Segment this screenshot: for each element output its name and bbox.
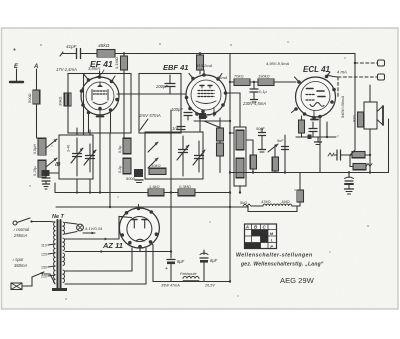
vertical line right: [354, 54, 356, 151]
ECL cathode resistor: [299, 116, 305, 137]
svg-text:0,15μ: 0,15μ: [33, 166, 37, 176]
cathode wire y137: [296, 122, 336, 145]
wire to coil: [37, 137, 43, 139]
osc trimmer 1: [177, 136, 189, 176]
vertical resistor chain x275: [272, 145, 279, 173]
svg-text:0,1μ: 0,1μ: [259, 89, 268, 94]
svg-text:EBF 41: EBF 41: [163, 63, 188, 72]
filter cap 2: [200, 250, 218, 288]
tone network caps right: [328, 150, 372, 170]
IF box EBF: [139, 74, 181, 134]
wire OT down to bus: [369, 129, 371, 173]
EBF cathode wire: [194, 120, 230, 122]
junction dots: [229, 132, 231, 134]
wave switch table: [245, 224, 277, 249]
tube ECL41: [292, 72, 336, 120]
osc switch arrow 2: [148, 158, 158, 168]
secondary winding 1: [63, 222, 65, 235]
wire between resistors: [250, 81, 258, 83]
cap to ground antenna: [42, 176, 50, 189]
svg-text:48kΩ: 48kΩ: [98, 43, 110, 49]
wire coil junction to box: [46, 172, 59, 174]
resistor 48k: [97, 43, 115, 57]
svg-text:26,5V: 26,5V: [204, 284, 215, 288]
svg-text:47kΩ: 47kΩ: [261, 199, 271, 204]
cathode line AZ11: [151, 242, 154, 282]
secondary winding 2: [63, 238, 65, 251]
svg-text:30kΩ: 30kΩ: [58, 97, 63, 106]
svg-text:8μF: 8μF: [177, 259, 185, 264]
heater wires AZ11: [65, 248, 146, 284]
volume pot: [240, 199, 297, 212]
resistor screen EBF vertical: [197, 52, 204, 74]
vertical component column x220: [217, 118, 224, 173]
svg-text:70kΩ: 70kΩ: [234, 74, 244, 79]
svg-text:4,1V/0,34: 4,1V/0,34: [85, 226, 103, 231]
ECL pin wire down: [319, 118, 321, 173]
primary taps: [41, 244, 55, 279]
svg-text:360mA: 360mA: [14, 263, 27, 268]
ground below blob: [135, 180, 143, 183]
core blob: [134, 169, 143, 177]
band switch arrow 1: [46, 139, 57, 148]
svg-text:915-2mA: 915-2mA: [196, 63, 213, 68]
svg-text:EF 41: EF 41: [90, 59, 113, 69]
antenna coil 2: [33, 160, 46, 177]
bus resistor row: [55, 192, 148, 194]
svg-text:AEG 29W: AEG 29W: [280, 276, 315, 285]
svg-text:1,5kΩ: 1,5kΩ: [149, 184, 160, 189]
detector cap column: [259, 128, 266, 152]
IF transformer II box: [234, 127, 246, 193]
svg-text:4,95V-8,5mA: 4,95V-8,5mA: [266, 61, 290, 66]
svg-text:5000: 5000: [126, 176, 136, 181]
right rail: [388, 119, 390, 173]
svg-text:500Ω: 500Ω: [27, 93, 32, 103]
dial lamp: [65, 223, 103, 235]
text normal 255mA: [13, 227, 30, 238]
svg-text:♪ normal: ♪ normal: [13, 227, 30, 232]
wire coil junction down: [45, 166, 47, 176]
transformer core: [52, 220, 67, 291]
anode wire EF41 to EBF41: [117, 93, 190, 95]
dashed line 1 with plug: [354, 60, 385, 66]
HV elbow into tube: [119, 217, 132, 240]
svg-text:220: 220: [41, 275, 47, 279]
trimmer stubs above box: [76, 128, 78, 135]
osc coil 1: [118, 138, 131, 154]
fuse plug: [11, 277, 32, 290]
resistor antenna 500ohm: [27, 90, 40, 104]
mains terminal and switch: [13, 218, 50, 225]
wires EF41 pins to box: [88, 113, 90, 133]
tube EBF41: [185, 70, 228, 117]
junction antenna coil: [45, 172, 47, 174]
speck dot: [14, 49, 16, 51]
svg-text:5kΩ: 5kΩ: [240, 200, 247, 205]
svg-text:0,1MΩ: 0,1MΩ: [114, 57, 119, 69]
speck dot: [40, 44, 41, 45]
svg-text:3-46: 3-46: [67, 145, 71, 152]
ECL cathode cap: [309, 122, 317, 137]
bus 2: [56, 206, 248, 208]
svg-text:2mV 57mA: 2mV 57mA: [138, 113, 161, 118]
wire top bus: [115, 53, 355, 55]
mid horizontal wire: [230, 172, 389, 174]
svg-text:AZ 11: AZ 11: [102, 241, 123, 250]
primary winding: [50, 222, 55, 284]
tube EF41: [80, 71, 119, 120]
capacitor 41pF: [60, 44, 97, 59]
svg-text:125: 125: [41, 253, 47, 257]
lower switch: [32, 272, 50, 277]
speaker frame: [364, 102, 383, 129]
text 2mV 57mA: [138, 113, 161, 130]
wire anode to OT: [369, 85, 371, 102]
resistor 0.3M: [178, 184, 195, 196]
switch arrow mid 1: [268, 144, 278, 152]
B+ rail vertical: [229, 54, 231, 282]
resistor below mid wire x300: [297, 173, 304, 207]
text spar: [12, 257, 27, 268]
tube AZ11: [119, 205, 159, 249]
cap 1nF symbol: [177, 127, 185, 130]
wires EF box to buses: [99, 133, 101, 193]
svg-text:0,5μ: 0,5μ: [118, 146, 122, 153]
wire to rail: [195, 192, 230, 194]
HV wires to AZ11: [65, 217, 172, 253]
wire ECL top to dashed: [327, 75, 338, 77]
wire antenna down: [36, 104, 38, 138]
svg-text:255mA: 255mA: [13, 233, 27, 238]
svg-text:0,2μ: 0,2μ: [118, 166, 122, 173]
svg-text:940V=30mA: 940V=30mA: [340, 96, 345, 118]
svg-text:4 mA: 4 mA: [337, 70, 347, 75]
wire IFbox to rail: [230, 132, 234, 134]
output transformer winding: [352, 112, 364, 127]
svg-text:920: 920: [352, 115, 357, 122]
svg-text:Feldspule: Feldspule: [180, 272, 196, 276]
trimmer cap 2: [84, 144, 96, 172]
resistor cathode 30k: [58, 93, 72, 106]
trimmer 200pF: [155, 75, 175, 94]
terminal A: [33, 64, 38, 90]
svg-text:Wellenschalter-stellungen: Wellenschalter-stellungen: [236, 253, 313, 259]
osc box: [145, 132, 203, 179]
svg-text:ECL 41: ECL 41: [303, 65, 331, 74]
svg-text:A: A: [33, 64, 38, 70]
svg-text:gez. Wellenschalterstlg. „Lang: gez. Wellenschalterstlg. „Lang“: [240, 262, 324, 268]
resistor 0.1M vertical: [114, 52, 128, 137]
terminal E: [10, 64, 23, 82]
svg-text:0,3MΩ: 0,3MΩ: [179, 184, 191, 189]
svg-text:♪ spar: ♪ spar: [12, 257, 24, 262]
cap 100pF: [171, 107, 192, 120]
svg-text:8μF: 8μF: [210, 258, 218, 263]
secondary winding 4: [63, 270, 65, 283]
wire EBF cathode down: [199, 118, 201, 132]
svg-text:100pF: 100pF: [171, 107, 183, 112]
trimmer cap 1: [67, 138, 84, 176]
svg-text:190kΩ: 190kΩ: [258, 74, 270, 79]
svg-text:+: +: [165, 266, 168, 272]
svg-text:/B: /B: [54, 162, 61, 168]
electrolytic right: [345, 171, 354, 194]
resistor 10k in box: [149, 163, 166, 175]
grid wire through tube ring: [83, 74, 85, 136]
dashed line 2 with plug: [338, 74, 385, 98]
svg-text:110: 110: [41, 244, 47, 248]
long vertical wire to first cap: [170, 110, 172, 258]
tuning cap box 1: [59, 135, 93, 179]
resistor 190k: [258, 74, 296, 86]
svg-text:Ne T: Ne T: [52, 214, 65, 220]
svg-text:10kΩ: 10kΩ: [151, 163, 161, 168]
mid column x285: [282, 135, 289, 174]
EF41 shield box: [68, 74, 131, 134]
antenna coil 1: [33, 138, 46, 155]
coupling cap 0.1u to ground: [250, 81, 268, 102]
svg-text:150: 150: [41, 266, 47, 270]
resistor 1.5k: [148, 184, 164, 196]
vertical resistor chain x253: [250, 140, 257, 173]
field coil 9000: [161, 272, 199, 288]
svg-text:5nF: 5nF: [277, 139, 284, 143]
svg-text:P: P: [270, 244, 273, 249]
core blob antenna: [42, 170, 50, 176]
svg-text:50pF: 50pF: [256, 127, 265, 131]
svg-text:A: A: [245, 225, 249, 230]
osc switch arrow 1: [148, 142, 158, 152]
secondary winding 3: [63, 253, 65, 266]
wire IFbox to resistor chain: [246, 139, 253, 141]
specks top: [159, 43, 160, 44]
osc coil 2: [118, 158, 131, 174]
band switch arrow 2: [46, 158, 57, 167]
osc trimmer 2: [193, 141, 205, 172]
svg-text:200pF: 200pF: [155, 84, 168, 89]
wire between: [164, 192, 178, 194]
ground blob EBF: [199, 113, 206, 119]
filter cap 1: [165, 259, 185, 282]
AZ11 bottom pin to wire: [139, 247, 141, 252]
svg-text:35W 47mA: 35W 47mA: [161, 284, 180, 288]
bottom bus: [153, 281, 230, 283]
trimmer stubs below box: [76, 179, 78, 193]
svg-text:0,5μH: 0,5μH: [33, 144, 37, 154]
S curve 3,8mA: [96, 70, 104, 77]
svg-text:17V-2,4mA: 17V-2,4mA: [56, 67, 77, 72]
wire EBF anode right: [226, 93, 241, 127]
svg-text:1MΩ: 1MΩ: [281, 199, 290, 204]
resistor 70k: [229, 74, 250, 86]
